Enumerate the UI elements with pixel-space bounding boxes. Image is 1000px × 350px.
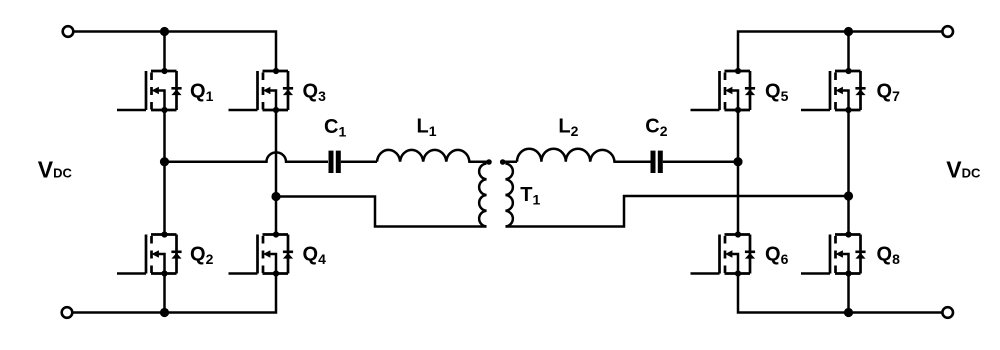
transformer T1 secondary (506, 164, 513, 227)
terminal bottom-right (942, 307, 953, 318)
transistor Q7 (801, 68, 866, 113)
svg-text:Q2: Q2 (190, 244, 214, 268)
wire bottom rail right (738, 274, 942, 313)
transformer T1 primary (479, 164, 486, 227)
svg-text:L2: L2 (558, 116, 578, 140)
inductor L1 (377, 150, 487, 164)
svg-text:Q6: Q6 (765, 244, 789, 268)
node left bridge A (160, 157, 169, 166)
wire leg Q5-Q6 (737, 110, 740, 235)
wire leg Q7-Q8 (847, 110, 850, 235)
terminal top-right (942, 26, 953, 37)
wire top rail right (738, 32, 942, 72)
wire leg Q8 source (847, 274, 850, 313)
terminal bottom-left (62, 307, 73, 318)
wire secondary bottom return (506, 196, 849, 227)
node top-left junction (160, 27, 169, 36)
transistor Q2 (117, 231, 182, 276)
svg-text:Q7: Q7 (877, 81, 901, 105)
node top-right junction (844, 27, 853, 36)
svg-text:VDC: VDC (38, 157, 73, 183)
wire leg Q1 drain (163, 32, 166, 72)
transistor Q3 (229, 68, 294, 113)
svg-text:Q5: Q5 (765, 81, 789, 105)
node dot secondary polarity (500, 159, 506, 165)
wire leg Q7 drain (847, 32, 850, 72)
inductor L2 (517, 149, 651, 162)
svg-text:Q4: Q4 (303, 244, 327, 268)
svg-text:C2: C2 (645, 116, 667, 140)
svg-text:C1: C1 (324, 116, 346, 140)
transistor Q1 (117, 68, 182, 113)
svg-text:VDC: VDC (946, 157, 981, 183)
wire bottom rail left (74, 274, 277, 313)
transistor Q4 (229, 231, 294, 276)
node left bridge B (271, 192, 280, 201)
capacitor C2 (653, 151, 660, 173)
wire mid rail left with hop (165, 152, 329, 161)
svg-text:T1: T1 (520, 184, 540, 208)
node dot primary polarity (486, 159, 492, 165)
node bottom-left junction (160, 308, 169, 317)
wire leg Q2 source (163, 274, 166, 313)
svg-text:Q3: Q3 (303, 81, 327, 105)
wire secondary top to L2 (506, 162, 518, 164)
capacitor C1 (331, 151, 338, 173)
wire leg Q3-Q4 (275, 110, 278, 235)
wire leg Q1-Q2 (163, 110, 166, 235)
svg-text:L1: L1 (417, 116, 437, 140)
transistor Q5 (691, 68, 756, 113)
wire primary bottom return (280, 197, 487, 227)
wire C1 to L1 (341, 160, 377, 163)
transistor Q6 (691, 231, 756, 276)
wire C2 to right bridge (663, 160, 738, 163)
svg-text:Q1: Q1 (190, 81, 214, 105)
node right bridge B (844, 191, 853, 200)
wire top rail left (75, 32, 277, 72)
svg-text:Q8: Q8 (877, 244, 901, 268)
transistor Q8 (801, 231, 866, 276)
terminal top-left (63, 26, 74, 37)
node right bridge A (733, 157, 742, 166)
node bottom-right junction (844, 308, 853, 317)
